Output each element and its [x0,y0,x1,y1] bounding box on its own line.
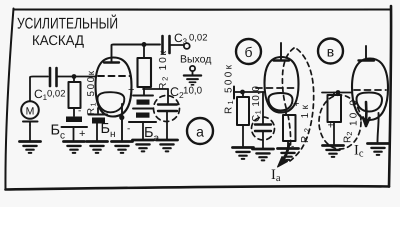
node cathode lead [119,115,124,120]
tube в cathode loop [357,93,383,112]
capacitor C3 [163,36,184,53]
circle label а [187,118,213,144]
label C3 0,02 [174,31,208,46]
svg-text:б: б [244,44,252,60]
wire R2 to battery node and C2 [143,87,168,95]
wire anode to node [114,44,160,46]
tube V1 cathode loop [97,92,124,112]
battery Бн (heater) [89,108,108,124]
label C1 0,02 [34,87,66,102]
ground (R1 б) [233,148,254,159]
wire Бн to ground [96,124,98,141]
label + R2 1k - б [291,98,312,152]
circle label б [236,39,261,64]
capacitor C1 б (circled) [255,92,271,148]
svg-text:0,02: 0,02 [47,89,66,100]
svg-text:-: - [291,141,294,152]
svg-text:Бс: Бс [51,123,66,142]
label C2 10,0 [170,85,203,100]
microphone M [21,101,39,121]
wire node to tube grid [74,76,96,78]
svg-text:10,0: 10,0 [183,86,203,97]
svg-text:КАСКАД: КАСКАД [32,32,84,48]
svg-text:Бн: Бн [101,121,116,140]
tube в grid (dashed) [354,89,386,91]
output terminal bottom [190,66,195,75]
battery Ба (anode) [127,84,156,135]
ground (Бс) [64,142,85,153]
tube б anode plate and lead [274,43,290,61]
svg-text:Iа: Iа [271,167,281,184]
svg-text:R1 500к: R1 500к [224,64,236,114]
dashed loop ellipse в [319,95,361,149]
wire microphone to ground [29,125,31,140]
label + R2 10,0 в [328,95,360,143]
circle label в [318,39,343,64]
svg-text:R2 1к: R2 1к [300,104,312,143]
svg-text:+: + [79,128,85,140]
ground (cathode) [112,142,133,153]
svg-text:+: + [328,120,334,132]
svg-text:+: + [128,84,134,96]
tube б cathode loop [269,93,293,111]
wire C1 to grid node [57,76,75,78]
wire cathode в to ground [378,113,379,142]
svg-text:М: М [26,106,35,118]
node grid в [336,90,341,95]
ground (C2) [157,140,178,151]
resistor R в [328,93,342,145]
svg-text:-: - [127,124,130,135]
tube в envelope [352,59,388,121]
svg-text:C1 10,0: C1 10,0 [251,86,263,122]
wire Бс to ground [73,127,75,140]
svg-text:в: в [327,44,334,60]
wire cathode б to R2 [285,111,287,116]
frame border [5,6,391,190]
capacitor C1 [50,68,57,86]
svg-text:R2: R2 [343,132,355,143]
resistor R1 б [237,92,249,146]
wire Ба to ground [142,122,144,139]
capacitor C2 (electrolytic, circled) [158,89,177,139]
wire grid б with end tick [234,87,265,99]
node anode junction [142,42,147,47]
ground (R в) [323,146,344,157]
ground (output) [184,76,201,85]
title text [17,15,118,49]
resistor R2 10k [138,45,152,88]
wire microphone to C1 [30,77,48,126]
ground (R2 б) [278,149,299,160]
tube V1 anode plate and lead [104,45,119,63]
ground (cathode в) [368,144,389,155]
node grid б [240,90,245,95]
arrow Iа [281,144,290,164]
arrow anode current в [363,102,370,126]
wire grid в [322,92,352,94]
output terminal top [184,43,190,49]
resistor R2 1k б [283,115,296,141]
svg-text:C1: C1 [34,87,48,102]
svg-text:0,02: 0,02 [189,33,208,44]
ground (Ба) [133,140,154,151]
tube б envelope [265,57,299,113]
tube в anode plate and lead [359,46,375,61]
svg-text:Выход: Выход [180,54,211,66]
tube V1 grid (dashed) [98,75,130,77]
resistor R1 500k [69,77,81,109]
svg-text:+: + [293,98,299,110]
svg-text:УСИЛИТЕЛЬНЫЙ: УСИЛИТЕЛЬНЫЙ [17,15,118,33]
dashed circle around C1 б [252,117,275,140]
ground (C1 б) [253,149,274,160]
svg-text:-: - [78,106,81,117]
wire R2 б to ground [287,141,289,147]
ground (Бн) [87,142,108,153]
svg-text:R2 10к: R2 10к [158,50,170,90]
svg-text:Iс: Iс [354,143,364,160]
node grid junction [72,74,77,79]
ground (microphone) [20,142,41,153]
battery Бс [62,106,88,141]
svg-text:C2: C2 [170,85,184,100]
tube V1 envelope [96,58,132,117]
dashed current loop Iа [282,48,313,161]
svg-text:а: а [196,124,204,140]
tube б grid (dashed) [256,87,297,89]
wire cathode right lead [121,104,123,140]
dashed circle around C2 [154,96,180,122]
